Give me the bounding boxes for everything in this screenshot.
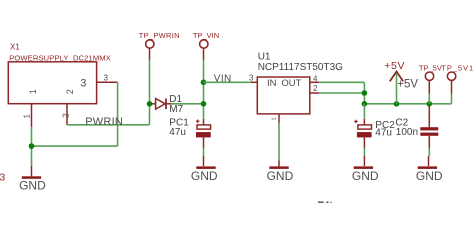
wire PC2 to GND: [363, 148, 365, 157]
wire U1 pin4 out: [319, 81, 364, 83]
testpoint TP_VIN circle: [200, 40, 208, 48]
junction rail at PC2: [362, 101, 368, 107]
U1 pin number 3: [249, 73, 254, 82]
wire U1 pin1 to GND: [278, 123, 280, 161]
svg-text:TP_5V1: TP_5V1: [441, 64, 474, 73]
connector X1 value label: [9, 54, 111, 63]
diode D1 cathode bar: [165, 99, 167, 110]
svg-text:OUT: OUT: [281, 78, 301, 89]
svg-text:VIN: VIN: [214, 73, 232, 84]
ground GND4 label: [352, 169, 379, 183]
X1 pin number 2: [61, 113, 70, 118]
wire down to 5V rail: [363, 93, 365, 104]
X1 pin name 3: [80, 77, 86, 89]
U1 pin number 1: [272, 117, 278, 120]
capacitor PC2 value label: [375, 128, 392, 139]
capacitor PC2 name label: [375, 120, 395, 131]
wire junction to GND symbol: [31, 146, 33, 166]
capacitor C2 top plate: [420, 127, 438, 130]
testpoint TP_PWRIN label: [139, 31, 180, 40]
svg-text:GND: GND: [191, 169, 218, 183]
U1 pin 1 stub bottom: [278, 114, 280, 123]
X1 pin number 1: [22, 114, 31, 119]
ground GND5 bar: [418, 166, 437, 169]
U1 pin 3 stub: [251, 81, 257, 83]
svg-text:GND: GND: [19, 178, 46, 192]
capacitor PC1 pin stub bottom: [203, 137, 205, 147]
capacitor PC2 plus sign: [354, 120, 358, 124]
testpoint TP_5V1 circle: [447, 72, 455, 80]
X1 pin number 3: [104, 73, 109, 82]
ground GND3 pin: [278, 161, 280, 167]
svg-text:1: 1: [28, 89, 38, 94]
capacitor PC1 top plate: [197, 125, 211, 129]
testpoint TP_5V pin stub: [428, 81, 430, 94]
testpoint TP_5V1 pin stub: [451, 81, 453, 94]
svg-text:2: 2: [313, 84, 318, 93]
X1 pin 2 stub: [66, 104, 68, 125]
wire pin3 net vertical x=118: [117, 82, 119, 146]
capacitor PC1 plus sign: [196, 120, 200, 124]
junction diode cathode node: [201, 101, 207, 107]
capacitor PC1 pin stub top: [203, 119, 205, 125]
ground GND2 bar: [196, 166, 215, 169]
testpoint TP_5V label: [419, 64, 442, 73]
ground GND3 bar: [269, 166, 288, 169]
wire pin4 corner down: [363, 82, 365, 93]
wire pin1 to GND junction: [31, 127, 33, 146]
ground GND5 label: [416, 169, 443, 183]
svg-text:3: 3: [80, 77, 86, 89]
ground GND2 label: [191, 169, 218, 183]
svg-text:3: 3: [249, 73, 254, 82]
wire diode cathode to VIN node: [172, 103, 204, 105]
supply +5V label red: [384, 60, 405, 72]
capacitor PC1 bottom plate: [196, 132, 211, 137]
svg-text:1: 1: [22, 114, 31, 119]
partial text at bottom edge: [318, 201, 332, 203]
capacitor C2 pin stub top: [428, 106, 430, 127]
capacitor PC1 value label: [169, 127, 186, 138]
connector X1 body: [8, 62, 96, 104]
U1 pin 2 stub: [310, 92, 319, 94]
junction rail at supply arrow: [394, 101, 400, 107]
svg-text:NCP1117ST50T3G: NCP1117ST50T3G: [258, 62, 343, 73]
U1 pin 4 stub: [310, 81, 319, 83]
svg-text:TP_5V: TP_5V: [419, 64, 442, 73]
ground GND3 label: [267, 169, 294, 183]
testpoint TP_PWRIN pin stub: [149, 49, 151, 60]
ground GND4 pin: [363, 156, 365, 166]
wire C2 to GND: [428, 148, 430, 157]
ground GND1 bar: [22, 176, 41, 179]
svg-text:2: 2: [65, 89, 75, 94]
svg-text:U1: U1: [258, 51, 271, 62]
svg-text:1: 1: [272, 117, 278, 120]
capacitor PC2 pin stub bottom: [363, 137, 365, 147]
ground GND4 bar: [354, 166, 373, 169]
capacitor C2 pin stub bottom: [428, 136, 430, 148]
capacitor C2 bottom plate: [420, 133, 438, 136]
wire PWRIN horizontal: [67, 124, 150, 126]
svg-text:PWRIN: PWRIN: [85, 116, 123, 128]
junction VIN node upper: [201, 80, 207, 86]
capacitor C2 value label: [396, 127, 418, 138]
ground GND2 pin: [203, 156, 205, 166]
junction GND node: [29, 143, 35, 149]
wire rail to PC2: [363, 104, 365, 119]
wire pin3 net horizontal along y=146: [32, 145, 118, 147]
svg-text:GND: GND: [416, 169, 443, 183]
svg-text:GND: GND: [352, 169, 379, 183]
capacitor PC2 pin stub top: [363, 119, 365, 125]
testpoint TP_5V circle: [425, 72, 433, 80]
wire supply stem: [396, 73, 398, 104]
ground GND1 pin: [31, 166, 33, 176]
wire PC1 to GND: [203, 148, 205, 157]
testpoint TP_5V1 label: [441, 64, 474, 73]
regulator U1 name label: [258, 51, 271, 62]
svg-text:47u: 47u: [169, 127, 186, 138]
capacitor C2 name label: [395, 117, 408, 128]
diode D1 name label: [169, 94, 182, 105]
svg-text:3: 3: [104, 73, 109, 82]
svg-text:100n: 100n: [396, 127, 418, 138]
capacitor PC2 top plate: [358, 125, 372, 129]
svg-text:M7: M7: [169, 104, 183, 115]
supply +5V arrow: [390, 72, 403, 82]
regulator U1 body: [257, 77, 310, 114]
junction pin2 node: [362, 90, 368, 96]
regulator U1 OUT label: [281, 78, 301, 89]
X1 pin name 1: [28, 89, 38, 94]
net label +5V gray: [397, 79, 418, 91]
diode D1 anode lead: [151, 103, 156, 105]
net label PWRIN: [85, 116, 123, 128]
svg-text:+5V: +5V: [397, 79, 418, 91]
diode D1 value label: [169, 104, 183, 115]
svg-text:+5V: +5V: [384, 60, 405, 72]
junction rail at TP_5V: [427, 101, 433, 107]
svg-text:47u: 47u: [375, 128, 392, 139]
regulator U1 IN label: [267, 78, 277, 89]
diode D1 cathode lead: [166, 103, 172, 105]
capacitor PC1 name label: [169, 117, 189, 128]
X1 pin name 2: [65, 89, 75, 94]
X1 pin 1 stub: [31, 104, 33, 127]
svg-text:TP_VIN: TP_VIN: [193, 31, 219, 40]
testpoint TP_VIN pin stub: [203, 49, 205, 60]
wire TP_5V1 to rail corner: [451, 94, 453, 104]
net label 3 at left edge: [0, 171, 5, 183]
X1 pin 3 stub: [97, 81, 118, 83]
capacitor PC2 bottom plate: [357, 132, 372, 137]
wire U1 pin2 out: [319, 92, 364, 94]
U1 pin number 4: [313, 74, 318, 83]
wire TP_5V to rail: [428, 94, 430, 104]
U1 pin number 2: [313, 84, 318, 93]
net label VIN: [214, 73, 232, 84]
wire VIN to U1: [204, 81, 252, 83]
svg-text:GND: GND: [267, 169, 294, 183]
wire 5V rail: [364, 103, 451, 105]
svg-text:2: 2: [61, 113, 70, 118]
connector X1 name label: [10, 43, 20, 52]
testpoint TP_VIN label: [193, 31, 219, 40]
diode D1 triangle: [156, 99, 166, 110]
ground GND1 label: [19, 178, 46, 192]
svg-text:3: 3: [0, 171, 5, 183]
junction diode anode: [147, 101, 153, 107]
wire TP_VIN down to VIN node and diode cathode: [203, 60, 205, 119]
regulator U1 value label: [258, 62, 343, 73]
svg-text:IN: IN: [267, 78, 277, 89]
wire PWRIN vertical up to diode anode: [149, 60, 151, 125]
svg-text:TP_PWRIN: TP_PWRIN: [139, 31, 180, 40]
svg-text:4: 4: [313, 74, 318, 83]
ground GND5 pin: [428, 156, 430, 166]
svg-text:X1: X1: [10, 43, 20, 52]
testpoint TP_PWRIN circle: [146, 40, 154, 48]
